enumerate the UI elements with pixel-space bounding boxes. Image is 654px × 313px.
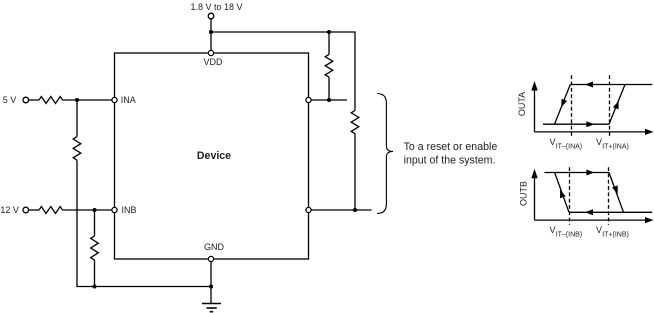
pin VDD bbox=[208, 50, 213, 55]
svg-text:IT+(INB): IT+(INB) bbox=[602, 231, 629, 238]
wire pull-up A bottom bbox=[328, 77, 330, 100]
wire node A pull-down to ground rail bbox=[77, 160, 211, 286]
junction OUTB pull-up node bbox=[353, 208, 357, 212]
junction node A bbox=[75, 98, 79, 102]
svg-text:IT–(INA): IT–(INA) bbox=[556, 143, 582, 150]
svg-text:INA: INA bbox=[121, 95, 136, 105]
svg-text:V: V bbox=[596, 137, 602, 147]
wire series resistor to INA bbox=[63, 99, 112, 101]
wire supply node to pull-up rail bbox=[211, 32, 355, 111]
OUTA hysteresis low segment bbox=[543, 123, 609, 125]
OUTB hysteresis high segment bbox=[544, 172, 609, 174]
pin INB bbox=[112, 207, 117, 212]
wire series resistor to INB bbox=[63, 209, 112, 211]
OUTB hysteresis low segment bbox=[569, 211, 652, 213]
svg-text:VDD: VDD bbox=[204, 57, 224, 67]
OUTA rising edge bbox=[609, 85, 625, 125]
resistor 12 V series bbox=[39, 207, 63, 214]
pin INA bbox=[112, 97, 117, 102]
wire 12 V terminal to series resistor bbox=[29, 209, 39, 211]
wire pull-up A top bbox=[328, 32, 330, 54]
wire supply terminal to VDD pin bbox=[210, 19, 212, 51]
pin OUTA bbox=[306, 97, 311, 102]
junction supply node bbox=[209, 30, 213, 34]
resistor pull-up B bbox=[351, 111, 359, 134]
pin GND bbox=[208, 256, 213, 261]
wire GND pin to ground symbol bbox=[210, 262, 212, 304]
junction node B ground rail bbox=[92, 284, 96, 288]
graph OUTA x-axis bbox=[535, 131, 647, 133]
svg-text:V: V bbox=[596, 225, 602, 235]
svg-text:OUTA: OUTA bbox=[517, 92, 527, 116]
svg-text:GND: GND bbox=[204, 242, 225, 252]
OUTA falling edge bbox=[555, 85, 571, 125]
OUTB rising edge bbox=[555, 172, 570, 212]
junction OUTA pull-up node bbox=[327, 98, 331, 102]
svg-text:input of the system.: input of the system. bbox=[404, 155, 496, 167]
pin OUTB bbox=[306, 207, 311, 212]
graph OUTA y-axis bbox=[534, 90, 536, 132]
wire 5 V terminal to series resistor bbox=[29, 99, 39, 101]
wire node A to pull-down resistor bbox=[76, 100, 78, 137]
resistor 5 V series bbox=[39, 97, 63, 104]
wire OUTB to system bbox=[311, 209, 372, 211]
svg-text:Device: Device bbox=[197, 150, 231, 162]
resistor node A pull-down bbox=[73, 137, 81, 161]
threshold dashed line VIT-(INA) bbox=[571, 75, 573, 136]
wire node B to pull-down resistor bbox=[94, 210, 96, 236]
svg-text:1.8 V to 18 V: 1.8 V to 18 V bbox=[191, 2, 243, 12]
supply terminal bbox=[208, 13, 214, 19]
junction pull-up A tap bbox=[327, 30, 331, 34]
wire OUTA to system bbox=[311, 99, 347, 101]
graph OUTB x-axis bbox=[535, 219, 647, 221]
brace to system annotation bbox=[377, 94, 393, 214]
svg-text:To a reset or enable: To a reset or enable bbox=[404, 141, 498, 153]
OUTA hysteresis high segment bbox=[570, 84, 652, 86]
threshold dashed line VIT-(INB) bbox=[569, 167, 571, 225]
svg-text:IT+(INA): IT+(INA) bbox=[602, 143, 629, 150]
12 V terminal bbox=[23, 207, 29, 213]
resistor node B pull-down bbox=[91, 236, 99, 260]
junction ground rail bbox=[209, 284, 213, 288]
junction node B bbox=[92, 208, 96, 212]
wire pull-up B bottom bbox=[354, 134, 356, 210]
threshold dashed line VIT+(INA) bbox=[609, 75, 611, 136]
device U1 box bbox=[115, 53, 309, 259]
graph OUTB y-axis bbox=[534, 178, 536, 221]
svg-text:IT–(INB): IT–(INB) bbox=[556, 231, 582, 238]
5 V terminal bbox=[23, 97, 29, 103]
svg-text:OUTB: OUTB bbox=[518, 181, 528, 206]
resistor pull-up A bbox=[325, 54, 333, 77]
wire node B pull-down to ground rail bbox=[94, 260, 96, 287]
ground symbol bbox=[202, 304, 221, 312]
svg-text:INB: INB bbox=[122, 205, 137, 215]
threshold dashed line VIT+(INB) bbox=[608, 167, 610, 225]
svg-text:V: V bbox=[550, 225, 556, 235]
svg-text:V: V bbox=[550, 137, 556, 147]
svg-text:5 V: 5 V bbox=[3, 95, 17, 105]
svg-text:12 V: 12 V bbox=[0, 205, 19, 215]
OUTB falling edge bbox=[609, 173, 624, 213]
